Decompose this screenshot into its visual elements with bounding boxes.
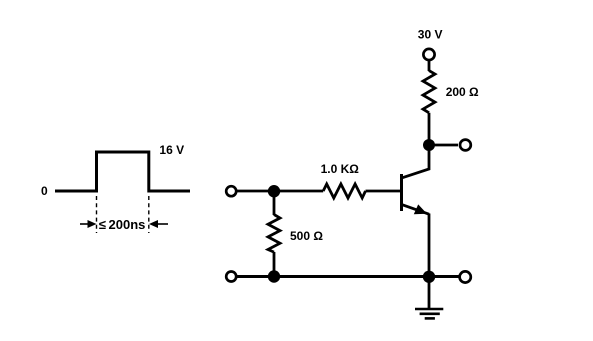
transistor Q1 base bar [400,174,403,211]
terminal output [460,140,471,151]
svg-text:1.0 KΩ: 1.0 KΩ [321,162,360,176]
wire collector [403,145,430,178]
node collector junction [423,139,435,151]
dashed marker right [148,196,150,233]
bottom rail wire [237,275,459,278]
wire node to resistor 500 [273,191,276,215]
resistor 200 ohm [423,71,435,113]
wire [428,61,431,71]
wire [428,113,431,150]
wire input to resistor [237,190,323,193]
transistor Q1 emitter [403,204,430,214]
terminal input [226,186,236,196]
svg-text:16 V: 16 V [159,143,184,157]
ground [415,277,443,319]
terminal bottom right [460,271,471,282]
node bottom left junction [268,270,280,282]
svg-text:0: 0 [41,184,48,198]
wire to output terminal [429,144,458,147]
arrow left (points right) [80,220,97,228]
dashed marker left [96,196,98,233]
wire resistor to rail [273,252,276,277]
resistor 500 ohm [268,215,280,253]
pulse waveform trace [55,152,190,191]
svg-text:200 Ω: 200 Ω [446,85,479,99]
node bottom right junction [423,271,435,283]
arrow right (points left) [149,220,168,228]
svg-text:≤ 200ns: ≤ 200ns [99,217,146,232]
base wire [366,190,401,193]
terminal 30V [423,49,434,60]
resistor 1.0 Kohm [323,184,365,198]
node input junction [268,185,280,197]
wire emitter down [428,214,431,277]
svg-text:500 Ω: 500 Ω [290,229,323,243]
svg-text:30 V: 30 V [418,28,443,42]
terminal bottom left [226,272,236,282]
